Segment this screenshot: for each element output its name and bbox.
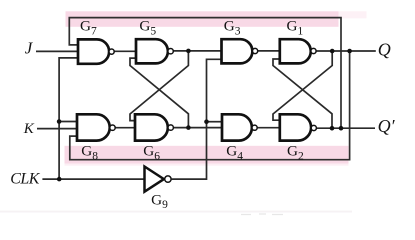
junction dot Q' feedback	[339, 126, 344, 131]
wire G6 output to G4 input	[173, 127, 222, 129]
junction dot Q coupling	[330, 49, 335, 54]
nand gate G1	[280, 39, 311, 63]
nand gate G3	[222, 39, 253, 63]
svg-text:G4: G4	[226, 143, 243, 163]
svg-text:G2: G2	[287, 143, 304, 163]
junction dot Q' coupling	[330, 126, 335, 131]
bubble G2	[311, 125, 316, 130]
bubble G8	[110, 125, 115, 130]
wire CLK stub to G8 top input	[59, 121, 77, 123]
svg-text:CLK: CLK	[10, 170, 41, 187]
pink highlight strip bottom	[65, 146, 349, 164]
pink highlight strip bottom lighter fringe	[65, 164, 349, 166]
wire master latch coupling G6 output to G5 bottom input	[130, 58, 188, 128]
junction dot G5 output	[186, 49, 191, 54]
junction dot CLK' to G4	[204, 119, 209, 124]
wire slave latch coupling Q to G2 top input	[273, 51, 332, 120]
wire Q' feedback to G7 top input	[69, 18, 341, 129]
wire G5 output to G3 input	[173, 50, 221, 52]
svg-text:G9: G9	[151, 191, 168, 211]
wire J input	[36, 50, 78, 52]
svg-text:G6: G6	[143, 143, 160, 163]
svg-text:G8: G8	[81, 143, 98, 163]
nand gate G2	[280, 114, 311, 140]
wire Q feedback to G8 bottom input	[70, 51, 350, 160]
faint cropped text marks at page bottom	[241, 213, 283, 216]
bubble G6	[168, 125, 173, 130]
bubble G4	[252, 125, 257, 130]
wire master latch coupling G5 output to G6 top input	[130, 51, 188, 121]
wire CLK' stub to G4 top input	[207, 121, 223, 123]
bubble G3	[253, 48, 258, 53]
bubble G9	[165, 176, 171, 182]
pink highlight strip top faint right extension	[339, 11, 367, 18]
junction dot CLK wire	[57, 177, 62, 182]
wire G1 output to Q	[316, 50, 376, 52]
svg-text:Q′: Q′	[378, 116, 396, 136]
junction dot Q feedback	[347, 49, 352, 54]
nand gate G7	[78, 39, 109, 63]
wire slave latch coupling Q' to G1 bottom input	[273, 59, 332, 128]
wire CLK riser to G7 bottom input	[59, 58, 78, 179]
nand gate G5	[136, 39, 168, 63]
wire G2 output to Q'	[317, 127, 376, 129]
wire K input	[37, 128, 77, 130]
junction dot G6 output	[186, 125, 191, 130]
svg-text:J: J	[25, 39, 34, 58]
junction dot CLK to G8	[57, 119, 62, 124]
bubble G5	[168, 49, 173, 54]
wire G4 output to G2 input	[257, 127, 280, 129]
wire G3 output to G1 input	[258, 50, 280, 52]
bubble G1	[311, 48, 316, 53]
wire G8 output to G6 input	[115, 127, 135, 129]
pink highlight strip top	[66, 11, 339, 26]
nand gate G8	[77, 114, 110, 140]
nand gate G4	[222, 114, 252, 140]
inverter G9	[145, 167, 164, 192]
wire G9 output CLK' up to G3 bottom input	[172, 59, 222, 179]
bubble G7	[109, 49, 114, 54]
wire G7 output to G5 input	[114, 50, 136, 52]
wire CLK input	[42, 178, 144, 180]
faint cropped artifact line at page bottom	[0, 211, 352, 213]
svg-text:K: K	[23, 121, 35, 137]
nand gate G6	[135, 114, 168, 140]
svg-text:Q: Q	[378, 40, 391, 60]
